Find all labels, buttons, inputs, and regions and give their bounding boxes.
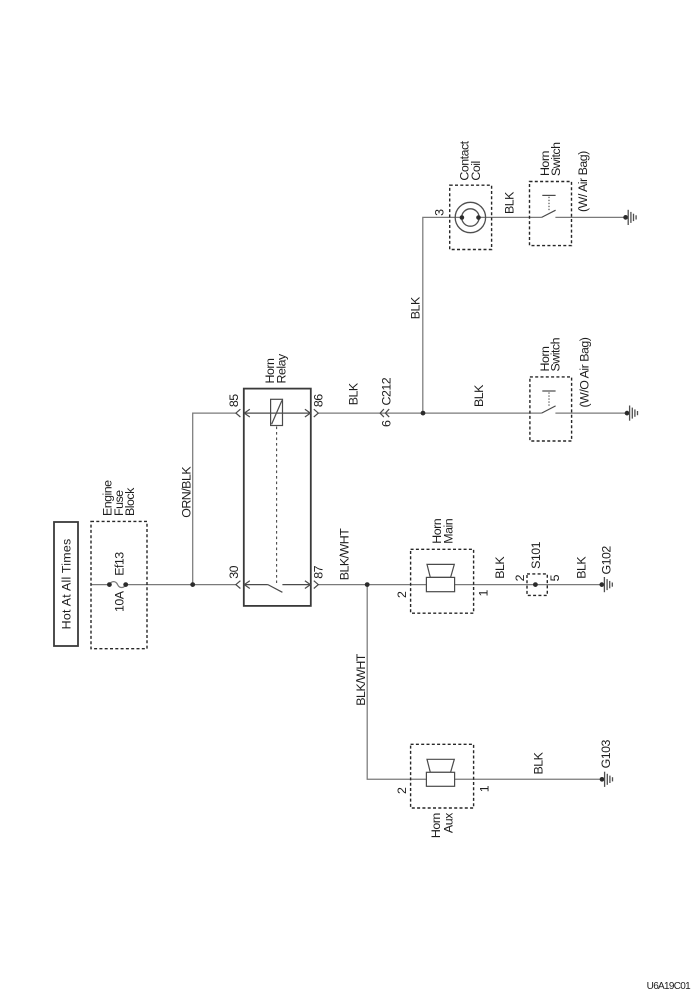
svg-text:BLK: BLK [532,751,546,774]
horn main dashed box [411,549,474,613]
svg-text:87: 87 [311,565,325,578]
contact coil inner circle [462,209,479,226]
relay contact blade [268,585,283,593]
svg-text:BLK/WHT: BLK/WHT [354,653,368,706]
svg-text:2: 2 [395,591,409,598]
wire ORN/BLK riser to relay pin 85 [193,413,236,584]
svg-text:(W/ Air Bag): (W/ Air Bag) [576,151,590,212]
svg-text:Hot At All Times: Hot At All Times [60,539,74,630]
svg-text:1: 1 [477,785,491,792]
node junction ORN/BLK [190,582,195,587]
svg-text:BLK: BLK [493,556,507,579]
switch actuator bar W/O [542,390,555,392]
svg-text:Main: Main [442,518,456,543]
svg-text:Switch: Switch [549,337,563,371]
svg-text:5: 5 [548,574,562,581]
svg-text:BLK/WHT: BLK/WHT [338,528,352,581]
pin 30 chevron [236,581,241,589]
horn aux symbol [427,759,454,772]
svg-text:G103: G103 [599,739,613,768]
relay contact wire with arrows [244,584,268,586]
wire horn switch W/O contact to ground [555,412,627,414]
svg-text:BLK: BLK [575,556,589,579]
splice S101 dashed box [527,574,547,596]
switch dotted link W/ [548,197,550,211]
fuse terminal dot left [107,582,112,587]
svg-text:BLK: BLK [503,191,517,214]
svg-text:(W/O Air Bag): (W/O Air Bag) [577,337,591,407]
svg-text:10A: 10A [112,590,126,612]
wire BLK riser to contact coil [423,217,462,413]
fuse Ef13 squiggle [109,582,125,588]
horn switch W/O air bag dashed box [530,377,572,441]
relay coil wire with arrows [244,412,310,414]
hot at all times box [54,522,78,646]
svg-text:BLK: BLK [472,384,486,407]
svg-text:Ef13: Ef13 [112,552,126,576]
wire horn switch W/ contact to ground [555,216,625,218]
contact coil terminal dots [460,215,465,220]
switch blade W/O [542,406,556,413]
horn switch W/ air bag dashed box [530,182,572,246]
svg-text:Coil: Coil [469,161,483,180]
contact coil dashed box [450,185,492,249]
fuse terminal dot right [123,582,128,587]
horn aux dashed box [411,744,474,808]
node S101 dot [533,582,538,587]
svg-text:BLK: BLK [347,382,361,405]
switch actuator bar W/ [542,194,555,196]
svg-text:2: 2 [395,787,409,794]
svg-text:1: 1 [476,590,490,597]
svg-text:Relay: Relay [275,353,289,383]
relay mechanical link dashed [276,427,278,584]
pin 85 chevron [236,409,241,417]
svg-text:G102: G102 [599,546,613,575]
relay coil element [271,399,283,425]
ground W/O air bag [625,406,638,421]
relay U horn relay box [244,389,311,606]
svg-text:3: 3 [433,209,447,216]
svg-text:ORN/BLK: ORN/BLK [180,466,194,518]
ground W/ air bag [623,210,636,225]
svg-text:6: 6 [380,420,394,427]
connector C212 chevrons [380,409,384,417]
switch blade W/ [542,210,556,217]
wire fuse to relay pin 30 [126,584,236,586]
switch dotted link W/O [548,392,550,406]
engine fuse block dashed box [91,521,147,648]
svg-text:Switch: Switch [549,142,563,176]
wire contact coil to horn switch W/ pivot [478,216,541,218]
wire fuse feed [91,584,109,586]
svg-text:C212: C212 [380,377,394,405]
svg-text:85: 85 [227,394,241,407]
svg-text:U6A19C01: U6A19C01 [647,981,691,992]
node junction BLK riser [421,411,426,416]
ground G102 [599,577,612,592]
horn main symbol [427,564,454,577]
svg-text:S101: S101 [529,541,543,569]
pin 87 chevron [314,581,319,589]
svg-text:30: 30 [227,565,241,578]
ground G103 [600,772,613,787]
svg-text:86: 86 [311,394,325,407]
wire relay pin 86 to horn switch W/O pivot [318,412,541,414]
svg-text:Block: Block [123,487,137,516]
node junction horn feed [365,582,370,587]
svg-text:Aux: Aux [441,812,455,833]
contact coil outer circle [455,202,485,232]
wire BLK/WHT drop to horn aux and G103 [367,585,602,780]
wire relay pin 87 to G102 [318,584,601,586]
pin 86 chevron [314,409,319,417]
svg-text:BLK: BLK [408,296,422,319]
svg-text:2: 2 [513,574,527,581]
